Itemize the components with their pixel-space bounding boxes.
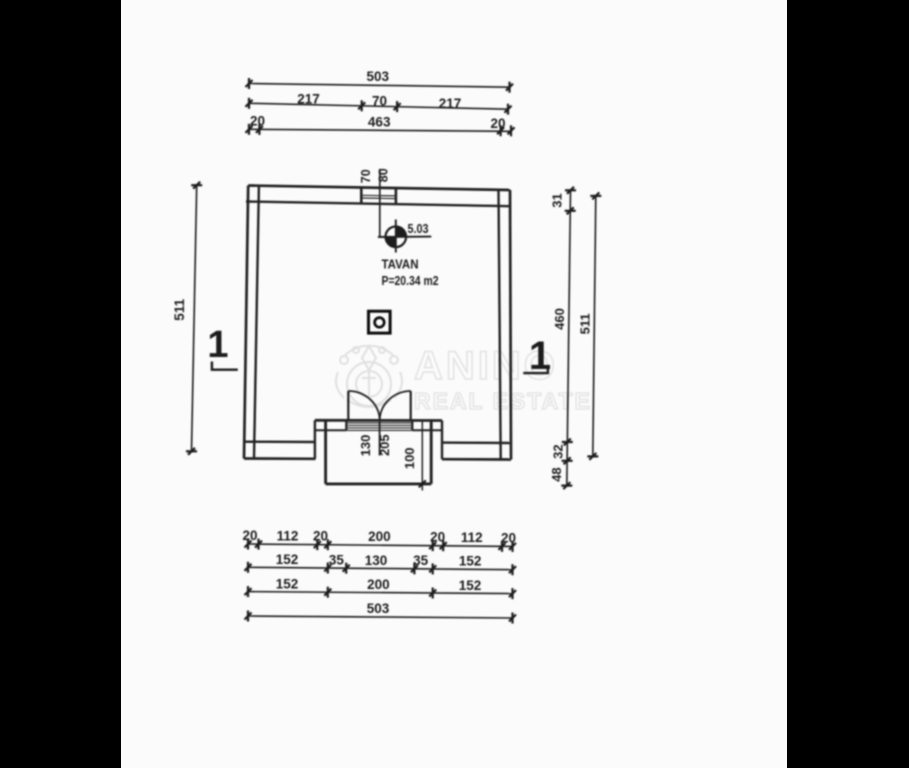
room inner wall bottom line left segment [245, 441, 316, 444]
top wall opening thin lines [361, 195, 396, 198]
svg-text:511: 511 [172, 298, 187, 320]
dim line 100 vertical [421, 421, 423, 491]
door jamb right in vestibule [411, 420, 413, 430]
svg-text:20: 20 [430, 530, 445, 545]
svg-text:503: 503 [367, 601, 390, 616]
chimney symbol square [369, 311, 391, 333]
svg-text:20: 20 [501, 530, 516, 545]
svg-text:100: 100 [402, 447, 417, 469]
room outer wall bottom-right segment [442, 458, 511, 461]
svg-text:217: 217 [297, 92, 320, 107]
svg-text:REAL ESTATE: REAL ESTATE [414, 388, 592, 414]
svg-text:48: 48 [549, 467, 564, 481]
wire: top dim line 503 [249, 84, 510, 88]
watermark emblem [336, 346, 402, 407]
door threshold lines [346, 423, 412, 431]
svg-text:112: 112 [277, 528, 299, 543]
node tick L-bottom [186, 448, 197, 455]
wire: top dim line 20-463-20 [249, 129, 511, 131]
node tick T3 marks [246, 124, 515, 137]
svg-text:152: 152 [459, 554, 482, 569]
door leaf right [410, 391, 412, 420]
section bracket right [523, 367, 548, 374]
svg-text:35: 35 [329, 552, 345, 567]
wire: bottom dim line B4 [248, 616, 513, 618]
section bracket left [212, 362, 238, 370]
node tick T2-mid1 [358, 100, 365, 111]
chimney flue centerline [379, 169, 381, 237]
vestibule right step vertical [441, 421, 443, 460]
svg-text:70: 70 [359, 169, 373, 183]
svg-text:20: 20 [490, 116, 505, 131]
node tick T2-mid2 [394, 101, 401, 112]
wire: left dim line 511 [192, 185, 197, 451]
room outer wall top [248, 186, 510, 191]
wire: bottom dim line B2 [248, 567, 513, 569]
svg-text:200: 200 [367, 577, 390, 592]
svg-text:130: 130 [358, 435, 373, 457]
node tick T1-right [506, 82, 513, 93]
svg-text:20: 20 [313, 529, 328, 544]
svg-text:152: 152 [276, 577, 299, 592]
svg-text:112: 112 [461, 530, 483, 545]
svg-text:35: 35 [413, 553, 429, 568]
svg-text:152: 152 [276, 552, 299, 567]
svg-text:32: 32 [551, 444, 566, 458]
wire: bottom dim line B3 [248, 592, 513, 594]
svg-text:20: 20 [250, 114, 265, 129]
room inner wall right line [499, 190, 501, 460]
vestibule bottom wall [326, 482, 432, 485]
vestibule top edge [315, 419, 442, 422]
node tick T2-right [505, 104, 512, 115]
door swing arc right [380, 391, 411, 421]
ticks B2 [245, 562, 517, 575]
ticks B1 [245, 539, 517, 552]
svg-text:463: 463 [368, 114, 391, 129]
vestibule left wall [324, 420, 327, 484]
room outer wall right [510, 190, 511, 460]
vestibule right wall [430, 421, 433, 484]
node tick L-top [191, 182, 202, 189]
door swing arc left [348, 391, 379, 421]
svg-text:503: 503 [367, 69, 390, 84]
ticks B4 [245, 611, 517, 624]
room outer wall left [244, 186, 248, 459]
svg-text:31: 31 [549, 193, 564, 207]
wire: right dim line 31-460-32-48 [567, 190, 571, 486]
svg-text:130: 130 [365, 553, 388, 568]
svg-text:460: 460 [552, 308, 567, 330]
svg-text:70: 70 [372, 94, 387, 109]
ticks right dim A [561, 187, 576, 489]
level marker circle [378, 220, 431, 253]
wire: bottom dim line B1 [248, 544, 513, 546]
svg-text:TAVAN: TAVAN [382, 257, 419, 272]
room inner wall bottom line right segment [442, 441, 512, 444]
top wall opening jambs [361, 187, 396, 204]
svg-text:1: 1 [207, 324, 228, 366]
ticks right dim B [587, 192, 601, 460]
watermark group [336, 344, 592, 414]
chimney symbol ring [375, 318, 385, 328]
svg-text:152: 152 [459, 578, 482, 593]
door center divider line [379, 421, 381, 456]
corner square bottom line right [412, 429, 442, 431]
wire: right dim line 511 [593, 196, 596, 457]
svg-text:200: 200 [368, 529, 391, 544]
corner square bottom line left [315, 429, 346, 431]
svg-text:20: 20 [242, 528, 257, 543]
door jamb left in vestibule [345, 420, 347, 430]
ticks B3 [245, 586, 517, 599]
svg-text:P=20.34 m2: P=20.34 m2 [382, 273, 439, 288]
tick on 100 line [419, 480, 426, 487]
node tick T2-left [246, 98, 253, 109]
room outer wall bottom-left segment [244, 457, 316, 460]
room inner wall left line [254, 186, 259, 459]
svg-text:205: 205 [377, 434, 392, 456]
vestibule left step vertical [314, 420, 316, 459]
room inner wall top line [246, 202, 511, 207]
svg-text:511: 511 [578, 313, 593, 334]
svg-text:217: 217 [439, 96, 462, 111]
wire: top dim line 217-70-217 [249, 103, 508, 109]
svg-text:80: 80 [377, 168, 391, 182]
door leaf left [347, 391, 349, 420]
white scan background [121, 0, 787, 768]
node tick T1-left [246, 78, 253, 89]
svg-text:5.03: 5.03 [408, 221, 429, 236]
